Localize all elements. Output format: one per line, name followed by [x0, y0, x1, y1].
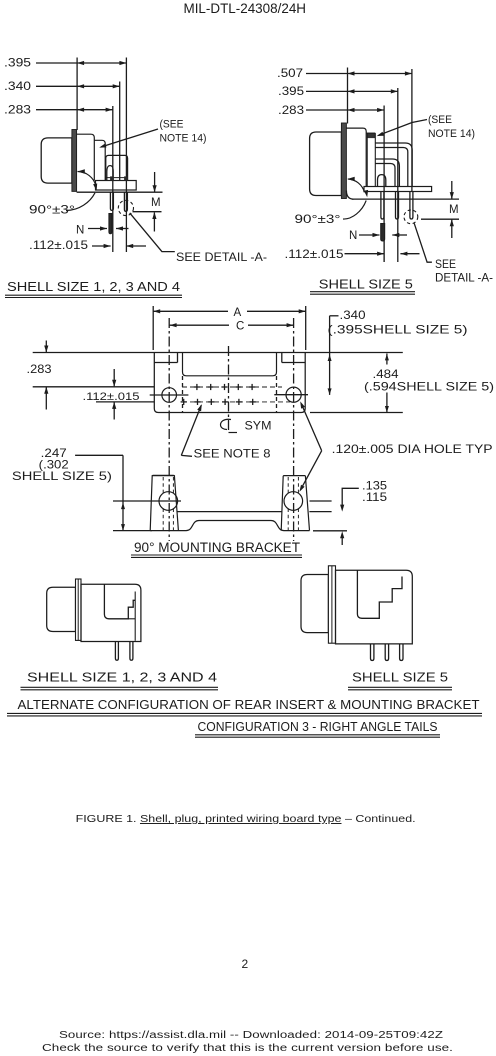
pin contacts row 1 crosses [194, 386, 200, 388]
svg-text:FIGURE 1. Shell, plug, printe: FIGURE 1. Shell, plug, printed wiring bo… [76, 814, 416, 825]
alt config pin1 left [115, 642, 118, 661]
bottom view base top edge [177, 511, 282, 513]
see note 14 leader right [379, 120, 428, 136]
svg-text:.395: .395 [4, 56, 31, 70]
svg-text:.115: .115 [362, 490, 387, 504]
dim C line [170, 324, 229, 326]
extension line pin row 1 [112, 106, 114, 252]
alt config body right [336, 570, 413, 644]
alt config flange left [76, 579, 82, 640]
dia hole leader V [301, 404, 321, 451]
pin 3 right view [410, 192, 413, 220]
svg-text:.112±.015: .112±.015 [285, 249, 344, 261]
svg-text:2: 2 [242, 957, 249, 971]
svg-text:SHELL SIZE 5: SHELL SIZE 5 [352, 670, 448, 685]
bent contact arch [107, 166, 113, 181]
svg-text:NOTE 14): NOTE 14) [160, 133, 207, 145]
rear insert [94, 140, 105, 180]
hidden lines right foot [287, 477, 289, 494]
dim M lower ext line [133, 211, 162, 213]
alt config body left [81, 584, 141, 641]
angle leader curve [66, 193, 95, 211]
dim .484 vertical [386, 354, 388, 365]
dim .112 line [92, 245, 111, 247]
alt config barrel right [301, 575, 328, 633]
formed contact outer [375, 143, 412, 187]
svg-text:.112±.015: .112±.015 [29, 240, 88, 252]
dim N line [88, 228, 107, 230]
dim line .283 [36, 109, 113, 111]
alt config staircase right [357, 570, 402, 618]
bracket plate [96, 181, 137, 191]
bracket step right [282, 362, 305, 364]
rear insert dark right [367, 133, 375, 138]
bracket shelf line [106, 177, 128, 179]
pin row2 dashed line [182, 401, 290, 403]
see note 8 leader [181, 405, 201, 455]
svg-text:C: C [236, 321, 244, 333]
svg-text:.395: .395 [278, 84, 304, 98]
extension line pin2 right [397, 88, 399, 262]
hidden lines left foot [162, 477, 164, 494]
pin row1 ext line left [33, 386, 155, 388]
see detail leader right [414, 223, 432, 262]
connector barrel left view [41, 138, 72, 183]
extension line pin3 right [411, 69, 413, 192]
board surface line [77, 191, 163, 193]
pin row1 dashed line [182, 386, 282, 388]
mounting bracket upper part [106, 155, 128, 180]
dim .283 bracket arrows [45, 341, 47, 353]
formed contact inner arch [378, 175, 386, 187]
pin1 ext below right [383, 241, 385, 262]
svg-text:DETAIL -A-: DETAIL -A- [435, 271, 493, 285]
svg-text:A: A [234, 307, 242, 319]
dim line .340 [36, 85, 120, 87]
hole right bottom view [284, 492, 303, 511]
dim line .283 right [306, 109, 384, 111]
connector flange right [341, 123, 346, 199]
pin near row solid right [381, 224, 385, 242]
dim M lower ext right [421, 218, 459, 220]
alt config flange right [328, 566, 335, 643]
svg-text:Check the source to verify tha: Check the source to verify that this is … [42, 1043, 453, 1054]
hole right ext line [310, 500, 332, 502]
centerline symbol [221, 419, 232, 429]
dim N line right [359, 234, 380, 236]
svg-text:(SEE: (SEE [428, 114, 452, 126]
connector flange [72, 130, 77, 192]
bottom view base bottom edge [150, 521, 309, 531]
hole center ext left bottom [113, 500, 181, 502]
pin row2 ext line left [96, 401, 154, 403]
svg-text:SHELL SIZE 5: SHELL SIZE 5 [319, 277, 413, 292]
svg-text:M: M [151, 197, 161, 209]
hole left crosshair [150, 394, 189, 396]
mount hole left front [162, 388, 177, 403]
dim .135 leader [342, 488, 359, 506]
centerline left hole vertical [168, 318, 170, 541]
hidden line recess left [182, 376, 184, 412]
angle arc right [348, 179, 365, 192]
bracket plate right [364, 187, 432, 192]
svg-text:N: N [76, 225, 84, 237]
pin shoulder row1 [110, 176, 114, 180]
detail -A- circle [118, 200, 133, 215]
svg-text:SHELL SIZE 5): SHELL SIZE 5) [12, 469, 112, 483]
svg-text:(SEE: (SEE [160, 119, 184, 131]
alt config barrel left [47, 587, 76, 631]
alt config pin3 right [400, 644, 403, 661]
svg-text:SEE NOTE 8: SEE NOTE 8 [194, 447, 271, 461]
bottom view left foot [150, 475, 178, 530]
dim .247 leader [75, 454, 123, 456]
pin 2 right view [396, 192, 399, 220]
svg-text:.283: .283 [27, 362, 52, 376]
mount hole right front [286, 387, 301, 402]
svg-text:90°±3°: 90°±3° [29, 203, 75, 217]
angle arc [78, 172, 96, 186]
dim line .395 [36, 62, 126, 64]
svg-text:.283: .283 [4, 103, 31, 117]
svg-text:SYM: SYM [245, 419, 272, 433]
bracket bottom ext right [310, 412, 403, 414]
dim M arrows right [451, 181, 453, 199]
pin row 1 far [110, 193, 113, 211]
svg-text:.340: .340 [340, 308, 366, 322]
angle leader right [343, 201, 366, 220]
svg-text:SHELL SIZE 1, 2, 3 AND 4: SHELL SIZE 1, 2, 3 AND 4 [7, 279, 180, 294]
hole left bottom view [159, 492, 178, 511]
alt config pin2 left [130, 642, 133, 661]
svg-text:SEE DETAIL -A-: SEE DETAIL -A- [176, 250, 267, 264]
svg-text:N: N [349, 230, 357, 242]
svg-text:MIL-DTL-24308/24H: MIL-DTL-24308/24H [184, 1, 307, 17]
svg-text:90°±3°: 90°±3° [295, 212, 341, 226]
dim .112 bracket arrows [113, 369, 115, 386]
bracket step left [154, 362, 177, 364]
ext line A right [305, 306, 307, 350]
bracket top edge line long [33, 352, 403, 354]
dim line .507 [306, 73, 412, 75]
svg-text:.120±.005 DIA HOLE TYP: .120±.005 DIA HOLE TYP [332, 442, 493, 456]
foot bottom ext left [113, 530, 152, 532]
svg-text:90° MOUNTING BRACKET: 90° MOUNTING BRACKET [134, 540, 300, 555]
connector barrel right view [310, 132, 342, 196]
svg-text:.507: .507 [277, 66, 303, 80]
see detail leader [130, 213, 175, 252]
detail circle right [404, 210, 418, 224]
svg-text:Source: https://assist.dla.mil: Source: https://assist.dla.mil -- Downlo… [59, 1030, 443, 1041]
svg-text:.340: .340 [4, 79, 31, 93]
svg-text:NOTE 14): NOTE 14) [428, 128, 475, 140]
extension line pin row 2 [125, 58, 127, 253]
dim .112 line right [345, 253, 385, 255]
dim A line [153, 310, 228, 312]
svg-text:CONFIGURATION 3 - RIGHT ANGLE: CONFIGURATION 3 - RIGHT ANGLE TAILS [198, 719, 438, 734]
extension line pin1 right [383, 106, 385, 263]
ext line A left [152, 306, 154, 350]
dim .340 vertical [329, 316, 331, 395]
shell body rear right [346, 128, 366, 186]
hole right crosshair [274, 394, 308, 396]
pin row 2 far [124, 193, 127, 212]
see note 14 leader [101, 129, 158, 147]
svg-text:SEE: SEE [435, 257, 456, 271]
body bottom corner right [346, 191, 353, 200]
svg-text:M: M [449, 204, 459, 216]
dim line .395 right [306, 90, 398, 92]
alt config inner cut left [104, 584, 135, 619]
svg-text:ALTERNATE CONFIGURATION OF REA: ALTERNATE CONFIGURATION OF REAR INSERT &… [18, 697, 480, 712]
hidden line recess right [276, 376, 278, 412]
bracket recess [183, 353, 277, 376]
svg-text:(.395SHELL SIZE 5): (.395SHELL SIZE 5) [328, 323, 468, 337]
svg-text:.112±.015: .112±.015 [83, 391, 140, 403]
alt config pin2 right [385, 644, 388, 661]
pin shoulder row2 [124, 176, 128, 180]
svg-text:(.594SHELL SIZE 5): (.594SHELL SIZE 5) [364, 380, 494, 394]
vertical center line sym [228, 346, 230, 433]
base top ext right [309, 511, 331, 513]
pin row 1 near solid [109, 214, 112, 234]
svg-text:.283: .283 [278, 103, 304, 117]
shell body rear [77, 134, 95, 180]
extension line flange face [76, 58, 78, 131]
pin contacts row 2 crosses [181, 401, 187, 403]
bottom view right foot [281, 476, 309, 531]
extension line insert face [119, 82, 121, 181]
extension line flange face right [347, 68, 349, 124]
base bottom ext right [313, 530, 347, 532]
board surface line right [352, 198, 459, 200]
pin 1 right view [381, 192, 384, 220]
formed contact middle [375, 159, 399, 187]
centerline right hole vertical [293, 318, 295, 541]
alt config pin1 right [371, 644, 374, 661]
dim M arrows [154, 172, 156, 192]
bracket body outline [154, 353, 305, 413]
svg-text:SHELL SIZE 1, 2, 3 AND 4: SHELL SIZE 1, 2, 3 AND 4 [27, 670, 217, 685]
